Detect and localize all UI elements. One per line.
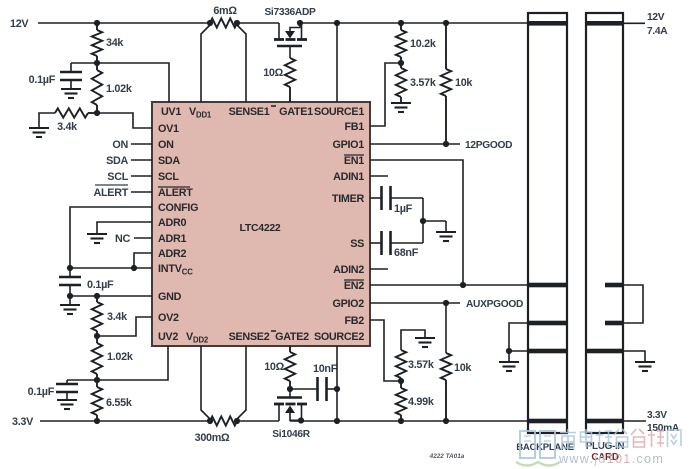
transistor Q2 body connection with diode arrow <box>285 406 295 414</box>
svg-text:GND: GND <box>158 291 182 303</box>
transistor Q1 drain lead <box>278 23 280 40</box>
wire timer cap to common <box>422 198 424 221</box>
connector J1 pin 3.3V <box>529 419 566 424</box>
resistor R14 10 Ohm gate2 <box>289 346 291 352</box>
wire ADR0 to ground <box>97 222 152 234</box>
svg-text:ADIN1: ADIN1 <box>333 171 364 183</box>
capacitor C5 68nF SS <box>370 242 382 244</box>
node junction RS1 right <box>234 20 240 26</box>
connector J1 pin 12V <box>529 21 566 26</box>
svg-text:3.57k: 3.57k <box>408 359 435 371</box>
node junction GPIO2/10k <box>443 300 449 306</box>
svg-text:www.jd101.com: www.jd101.com <box>558 452 664 466</box>
wire GND pin row <box>70 295 152 297</box>
wire OV1 tap <box>97 113 152 128</box>
node junction 10k/rail <box>443 418 449 424</box>
svg-text:300mΩ: 300mΩ <box>195 432 230 444</box>
svg-text:GATE2: GATE2 <box>275 331 309 343</box>
capacitor C1 0.1uF <box>70 63 72 72</box>
svg-text:SENSE1: SENSE1 <box>229 106 270 118</box>
ground above 3.57k <box>415 337 435 339</box>
ground below 3.57k <box>391 102 411 104</box>
wire AUXPGOOD to 10k <box>445 303 447 353</box>
wire Q1 gate to 10 ohm <box>289 46 291 58</box>
wire SENSE1 kelvin sense <box>237 25 246 102</box>
node junction ADR2/INTVCC <box>131 265 137 271</box>
wire GPIO1 to 12PGOOD <box>370 143 460 145</box>
wire 12V rail right segment <box>300 22 528 24</box>
transistor Q1 gate bar <box>277 45 302 48</box>
svg-text:0.1µF: 0.1µF <box>29 74 56 86</box>
svg-text:ON: ON <box>158 139 174 151</box>
svg-text:UV2: UV2 <box>158 331 178 343</box>
svg-text:FB2: FB2 <box>345 315 365 327</box>
svg-text:EN2: EN2 <box>344 280 364 292</box>
wire UV2 tap <box>97 346 168 380</box>
wire card gnd to ground <box>623 351 645 362</box>
wire ADIN1 stub <box>370 175 388 177</box>
wire VDD2 kelvin sense <box>201 346 210 419</box>
node junction 3.57k/4.99k/FB2 <box>398 378 404 384</box>
wire EN2 row to backplane <box>370 284 529 286</box>
svg-text:3.3V: 3.3V <box>647 410 667 421</box>
node junction gate2/10nF <box>287 386 293 392</box>
watermark char 1 jia blue <box>560 429 576 448</box>
node junction Q1 source/rail <box>297 20 303 26</box>
node junction 34k/1.02k/UV1 <box>94 60 100 66</box>
svg-text:12V: 12V <box>647 12 665 23</box>
watermark char 3 wei blue <box>596 430 612 447</box>
svg-text:SCL: SCL <box>107 171 128 183</box>
wire CONFIG to INTVCC node <box>70 207 152 268</box>
svg-text:ON: ON <box>112 139 128 151</box>
svg-text:SOURCE1: SOURCE1 <box>314 106 364 118</box>
resistor R3 3.4k horizontal <box>55 108 88 117</box>
wire FB2 tap <box>370 320 401 381</box>
svg-text:FB1: FB1 <box>345 121 365 133</box>
svg-text:1µF: 1µF <box>394 203 413 215</box>
watermark book icon <box>520 431 555 458</box>
node junction C2/GND <box>67 293 73 299</box>
wire ON pin <box>131 143 152 145</box>
connector J1 BACKPLANE outline <box>528 13 567 433</box>
ground backplane <box>508 351 510 362</box>
transistor Q1 channel dashes <box>274 38 284 41</box>
wire ADR1 stub <box>134 237 152 239</box>
node junction 10k/GPIO1 <box>443 141 449 147</box>
node junction SOURCE2/rail <box>334 418 340 424</box>
svg-text:NC: NC <box>115 233 130 245</box>
wire 3.57k top to ground <box>401 330 425 350</box>
resistor R11 3.57k <box>396 350 406 378</box>
svg-text:SCL: SCL <box>158 171 179 183</box>
svg-text:10k: 10k <box>455 77 473 89</box>
svg-text:4.99k: 4.99k <box>408 396 435 408</box>
capacitor C2 0.1uF INTVCC bypass <box>69 268 71 277</box>
watermark char 2 dian blue <box>581 429 593 446</box>
connector J2 pin sense right half <box>605 321 622 326</box>
watermark book underline swoosh <box>516 462 560 466</box>
node junction RS2 left <box>207 418 213 424</box>
node junction 12V/34k <box>94 20 100 26</box>
svg-text:ADIN2: ADIN2 <box>333 264 364 276</box>
node junction 4.99k/rail <box>398 418 404 424</box>
svg-text:3.3V: 3.3V <box>12 416 34 428</box>
svg-text:3.4k: 3.4k <box>107 311 128 323</box>
svg-text:EN1: EN1 <box>344 155 364 167</box>
connector J2 PLUG-IN CARD outline <box>586 13 623 433</box>
wire to cap C3 <box>67 379 97 381</box>
svg-text:ALERT: ALERT <box>94 187 129 199</box>
node junction rail/10k <box>443 20 449 26</box>
ground below C3 <box>66 392 68 400</box>
transistor Q1 body connection with diode arrow <box>290 23 300 31</box>
node junction RS2 right <box>234 418 240 424</box>
connector J1 pin sense gnd <box>529 321 566 326</box>
node junction 1.02k/6.55k/UV2 <box>94 377 100 383</box>
wire 3.4k to ground <box>39 113 55 128</box>
node junction 10.2k/3.57k/FB1 <box>398 60 404 66</box>
svg-text:4222 TA01a: 4222 TA01a <box>429 453 465 460</box>
svg-text:SOURCE2: SOURCE2 <box>314 331 364 343</box>
ground below 3.4k <box>29 127 49 129</box>
svg-text:0.1µF: 0.1µF <box>87 279 114 291</box>
svg-text:7.4A: 7.4A <box>647 26 668 37</box>
wire SDA pin <box>131 159 152 161</box>
wire backplane gnd pin tap <box>509 323 529 351</box>
svg-text:3.4k: 3.4k <box>57 121 78 133</box>
connector J2 pin EN short right half <box>605 283 622 288</box>
resistor R7 10 Ohm gate <box>285 58 295 87</box>
watermark char 4 xiu blue <box>614 429 628 447</box>
ground below C1 <box>70 80 72 89</box>
svg-text:SDA: SDA <box>106 155 128 167</box>
svg-text:SS: SS <box>350 238 364 250</box>
transistor Q2 channel dashes <box>274 403 284 406</box>
wire card EN loopback <box>622 285 643 323</box>
resistor RS2 300mOhm sense <box>210 416 237 425</box>
ground for timer/ss caps <box>445 221 447 232</box>
transistor Q1 source lead <box>301 23 303 40</box>
connector J2 pin 3.3V <box>587 419 622 424</box>
node junction SOURCE1/rail <box>334 20 340 26</box>
svg-text:6mΩ: 6mΩ <box>213 5 237 17</box>
node junction CONFIG/INTVCC <box>67 265 73 271</box>
wire 3.3V rail right segment <box>290 420 528 422</box>
node junction 10nF/SOURCE2 <box>334 386 340 392</box>
svg-text:3.57k: 3.57k <box>410 77 437 89</box>
svg-text:10k: 10k <box>454 362 472 374</box>
resistor R5 1.02k <box>96 336 98 343</box>
wire UV1 sense tap <box>97 63 169 102</box>
resistor R10 10k <box>445 23 447 69</box>
node junction RS1 left <box>207 20 213 26</box>
ground below GND pin <box>69 296 71 305</box>
resistor R6 6.55k <box>96 380 98 387</box>
transistor Q2 drain lead <box>278 404 280 421</box>
connector J2 pin GND <box>587 349 622 354</box>
svg-text:10nF: 10nF <box>313 363 338 375</box>
wire FB1 tap <box>370 63 401 126</box>
svg-text:ALERT: ALERT <box>158 187 193 199</box>
capacitor C6 10nF <box>290 388 318 390</box>
svg-text:GPIO2: GPIO2 <box>332 298 364 310</box>
resistor R13 10k <box>441 353 451 380</box>
resistor R2 1.02k <box>96 63 98 70</box>
wire EN1 to EN2 bus <box>370 160 463 285</box>
IC U1 LTC4222 body <box>152 102 370 346</box>
resistor R8 10.2k <box>400 23 402 30</box>
wire VDD1 kelvin sense <box>201 25 210 102</box>
wire 3.3V to card output <box>623 420 646 422</box>
wire SOURCE1 to rail <box>336 23 338 102</box>
wire rail to Q2 drain <box>237 420 279 422</box>
node junction 3.4k/1.02k/OV2 <box>94 333 100 339</box>
resistor R9 3.57k <box>400 63 402 68</box>
ground at ADR0 <box>87 233 107 235</box>
resistor R4 3.4k <box>96 296 98 302</box>
svg-text:LTC4222: LTC4222 <box>240 222 281 234</box>
svg-text:ADR1: ADR1 <box>158 233 186 245</box>
svg-text:12V: 12V <box>10 18 29 30</box>
node junction GND/3.4k <box>94 293 100 299</box>
wire INTVCC row <box>70 267 152 269</box>
node junction Q2 source/rail <box>298 417 304 423</box>
svg-text:AUXPGOOD: AUXPGOOD <box>466 299 523 310</box>
resistor R1 34k <box>96 23 98 30</box>
svg-text:68nF: 68nF <box>394 247 419 259</box>
wire 12V rail left segment <box>38 22 210 24</box>
svg-text:SDA: SDA <box>158 155 180 167</box>
svg-text:10Ω: 10Ω <box>263 67 283 79</box>
svg-text:Si7336ADP: Si7336ADP <box>264 7 316 18</box>
transistor Q2 source lead <box>301 404 303 421</box>
svg-text:UV1: UV1 <box>161 106 181 118</box>
svg-text:SENSE2: SENSE2 <box>229 331 270 343</box>
connector J2 pin 12V <box>587 21 622 26</box>
svg-text:ADR2: ADR2 <box>158 248 186 260</box>
svg-text:CONFIG: CONFIG <box>158 202 198 214</box>
watermark char 5 zi pink <box>631 429 645 447</box>
svg-text:Si1046R: Si1046R <box>272 429 310 440</box>
watermark char 7 wang blue <box>668 430 682 447</box>
transistor Q2 gate bar <box>289 389 291 397</box>
capacitor C4 1uF TIMER <box>370 197 382 199</box>
capacitor C3 0.1uF <box>66 380 68 384</box>
svg-text:OV1: OV1 <box>158 123 179 135</box>
wire to bypass cap C1 <box>71 62 97 64</box>
connector J1 pin EN2 <box>529 283 566 288</box>
ground plug-in card <box>635 361 655 363</box>
wire ADR2 to INTVCC node <box>134 253 152 268</box>
wire ADIN2 stub <box>370 268 388 270</box>
node junction timer/ss caps <box>420 218 426 224</box>
node junction backplane gnd <box>506 348 512 354</box>
wire caps common to ground <box>423 220 446 222</box>
svg-text:GATE1: GATE1 <box>279 106 313 118</box>
resistor R12 4.99k <box>400 381 402 388</box>
svg-text:10Ω: 10Ω <box>264 361 284 373</box>
svg-text:TIMER: TIMER <box>332 193 365 205</box>
node junction 1.02k/3.4k/OV1 <box>94 110 100 116</box>
node junction EN1/EN2 <box>460 282 466 288</box>
wire rail to Q1 drain <box>237 22 279 24</box>
svg-text:34k: 34k <box>106 37 124 49</box>
wire ss cap to common <box>422 221 424 243</box>
connector J1 pin GND <box>529 349 566 354</box>
resistor RS1 6mOhm sense <box>210 18 237 27</box>
svg-text:OV2: OV2 <box>158 312 179 324</box>
svg-text:0.1µF: 0.1µF <box>28 386 55 398</box>
watermark char 6 liao pink <box>648 430 664 447</box>
svg-text:6.55k: 6.55k <box>106 397 133 409</box>
svg-text:12PGOOD: 12PGOOD <box>465 140 512 151</box>
wire OV2 tap <box>97 317 152 336</box>
node junction rail/10.2k <box>398 20 404 26</box>
svg-text:GPIO1: GPIO1 <box>332 139 364 151</box>
wire C2 bottom to GND row <box>69 285 71 296</box>
svg-text:10.2k: 10.2k <box>410 38 437 50</box>
wire GPIO2 AUXPGOOD row <box>370 302 460 304</box>
wire SCL pin <box>131 175 152 177</box>
wire 3.3V rail left segment <box>40 420 210 422</box>
svg-text:1.02k: 1.02k <box>107 351 134 363</box>
svg-text:1.02k: 1.02k <box>106 83 133 95</box>
wire 12V to card output <box>623 22 645 24</box>
wire ALERT pin <box>131 191 152 193</box>
wire SENSE2 kelvin sense <box>237 346 246 419</box>
node junction 6.55k/rail <box>94 418 100 424</box>
svg-text:ADR0: ADR0 <box>158 217 186 229</box>
wire SOURCE2 to rail <box>336 346 338 421</box>
